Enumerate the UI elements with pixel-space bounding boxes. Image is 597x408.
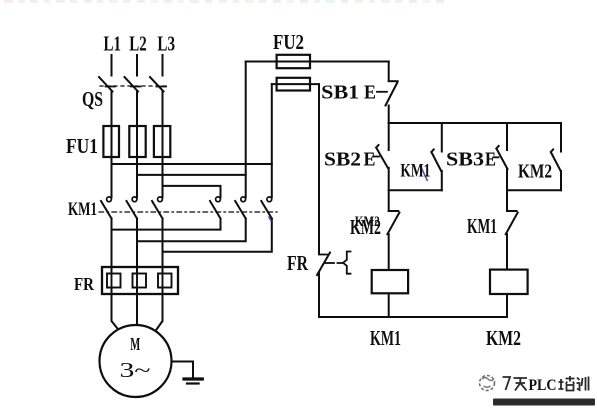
svg-text:E: E bbox=[364, 82, 376, 104]
svg-text:E: E bbox=[485, 149, 496, 171]
svg-text:KM1: KM1 bbox=[400, 161, 430, 182]
svg-text:L2: L2 bbox=[129, 32, 147, 56]
svg-text:FR: FR bbox=[287, 251, 309, 275]
svg-text:M: M bbox=[130, 334, 140, 354]
svg-text:SB2: SB2 bbox=[324, 149, 361, 171]
svg-text:FU1: FU1 bbox=[66, 134, 98, 158]
svg-text:SB1: SB1 bbox=[321, 82, 359, 104]
svg-text:KM1: KM1 bbox=[370, 326, 401, 350]
svg-text:KM2: KM2 bbox=[355, 214, 380, 230]
svg-text:FR: FR bbox=[74, 274, 95, 294]
svg-text:KM1: KM1 bbox=[68, 199, 97, 220]
svg-text:3~: 3~ bbox=[120, 358, 151, 382]
svg-text:KM2: KM2 bbox=[486, 326, 521, 350]
svg-text:FU2: FU2 bbox=[273, 30, 304, 54]
svg-text:KM1: KM1 bbox=[467, 214, 497, 238]
svg-text:E: E bbox=[364, 149, 376, 171]
svg-text:L1: L1 bbox=[104, 32, 122, 56]
svg-text:SB3: SB3 bbox=[446, 149, 484, 171]
svg-text:L3: L3 bbox=[157, 32, 175, 56]
svg-text:PLC: PLC bbox=[529, 377, 557, 394]
svg-text:QS: QS bbox=[82, 87, 103, 111]
svg-text:KM2: KM2 bbox=[518, 161, 552, 183]
